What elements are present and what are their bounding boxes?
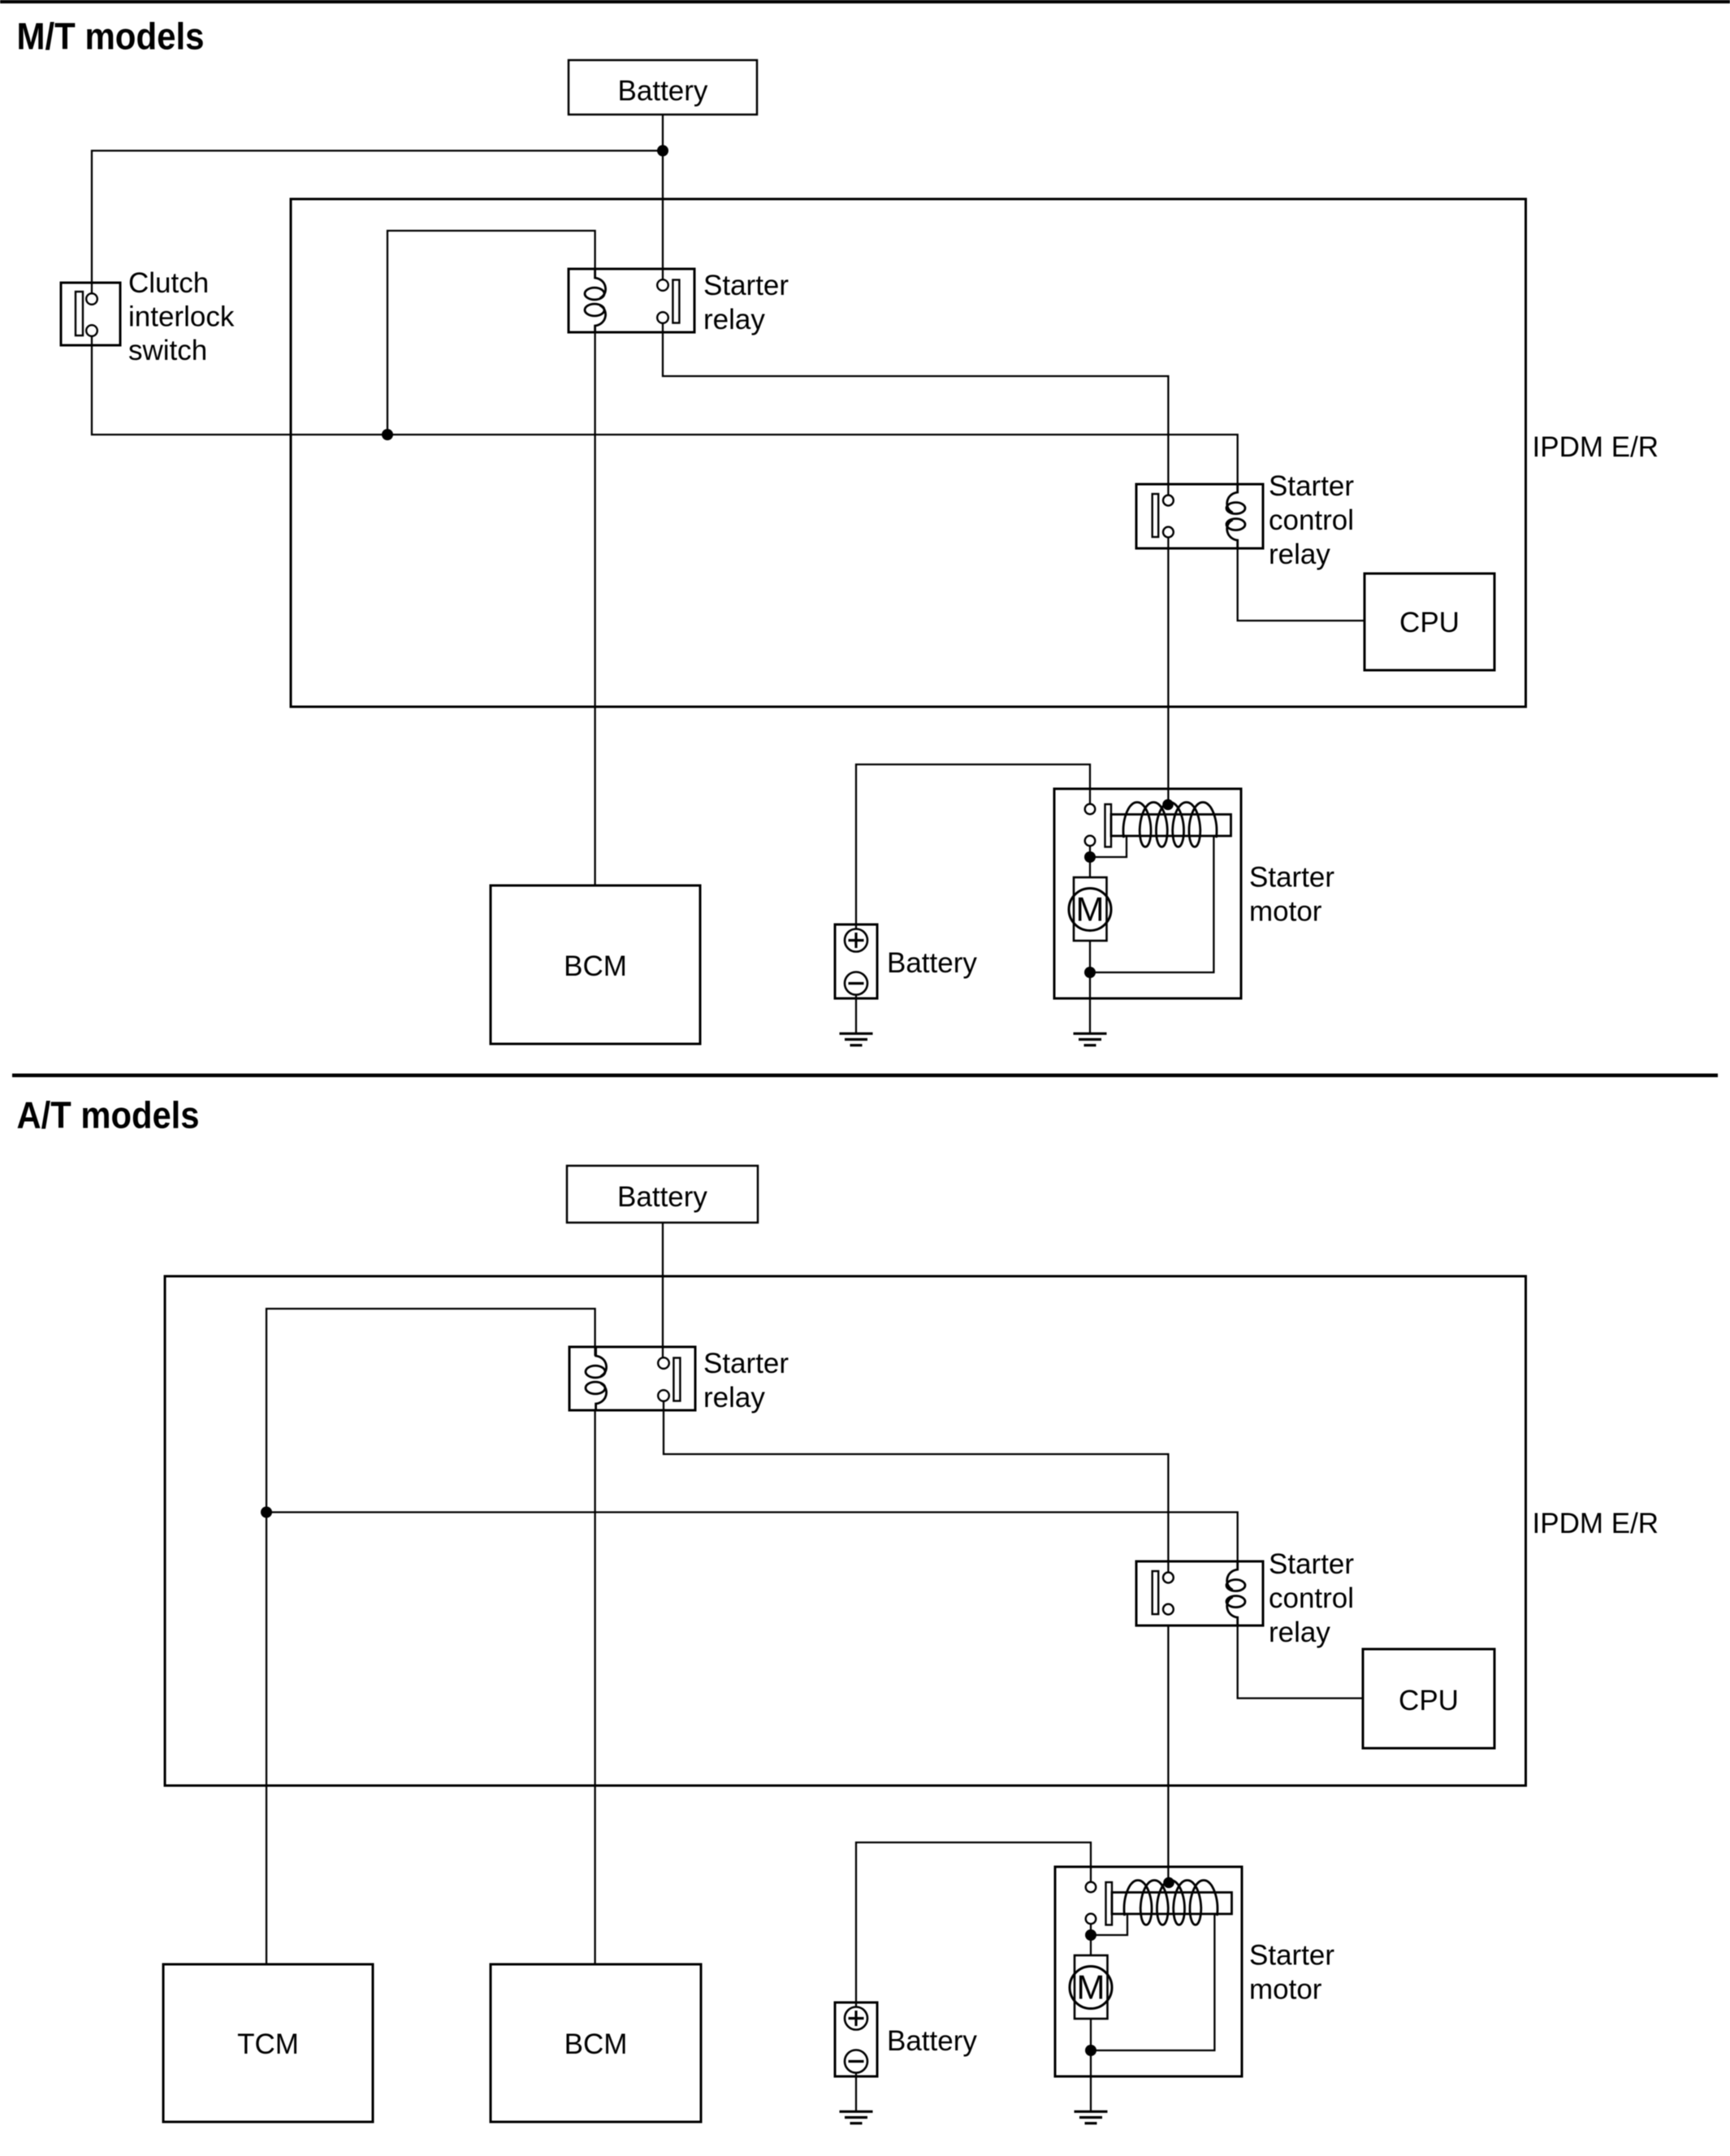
svg-text:Battery: Battery <box>617 1181 707 1213</box>
svg-text:BCM: BCM <box>564 2028 628 2060</box>
solenoid coil <box>1123 803 1217 847</box>
wire junction to solenoid core <box>1091 1914 1127 1935</box>
wire clutch switch to relay coils (lower run) <box>92 345 1238 491</box>
svg-text:motor: motor <box>1249 1974 1322 2006</box>
starter control relay (A/T) <box>1136 1561 1263 1626</box>
wire battery negative to ground <box>855 995 857 1034</box>
lower junction dot <box>1085 2045 1096 2056</box>
starter relay (A/T) contacts <box>658 1357 680 1401</box>
BCM box (A/T) <box>491 1964 701 2122</box>
svg-text:control: control <box>1269 1582 1354 1614</box>
wire junction down to TCM (A/T) <box>266 1513 267 1965</box>
svg-text:IPDM E/R: IPDM E/R <box>1533 431 1659 463</box>
wire motor to lower junction <box>1090 2019 1092 2050</box>
wire junction to motor <box>1089 857 1091 877</box>
starter relay (M/T) contacts <box>657 279 679 323</box>
wire starter relay contact to control relay contact <box>663 323 1168 496</box>
solenoid plunger bar <box>1105 804 1112 847</box>
starter relay (A/T) coil <box>586 1347 607 1410</box>
svg-text:M/T models: M/T models <box>17 15 205 58</box>
svg-text:Battery: Battery <box>618 76 708 107</box>
svg-text:Starter: Starter <box>1269 1548 1354 1580</box>
battery feed box (A/T) <box>567 1166 758 1223</box>
battery (A/T) negative terminal <box>845 2050 867 2073</box>
return wire to core bar <box>1090 836 1213 972</box>
clutch interlock switch <box>61 283 120 345</box>
starter control relay (M/T) coil <box>1226 484 1245 548</box>
svg-text:Starter: Starter <box>1249 862 1334 894</box>
svg-text:motor: motor <box>1249 896 1322 928</box>
wire junction to motor <box>1090 1935 1092 1955</box>
solenoid core bar <box>1111 815 1231 837</box>
section separator line <box>12 1074 1718 1078</box>
IPDM E/R box (M/T) <box>291 199 1526 707</box>
wire control relay coil to CPU (A/T) <box>1238 1626 1363 1699</box>
svg-text:Starter: Starter <box>1269 470 1354 502</box>
svg-text:Starter: Starter <box>703 1348 789 1379</box>
starter control relay (A/T) contacts <box>1153 1571 1174 1614</box>
svg-text:M: M <box>1076 890 1105 929</box>
wire control relay coil to CPU <box>1238 548 1365 621</box>
svg-text:Battery: Battery <box>887 947 977 979</box>
wire battery to starter motor feed (A/T) <box>856 1842 1091 2007</box>
motor M <box>1069 877 1111 941</box>
wire contact to junction <box>1089 846 1091 857</box>
starter motor (A/T) box <box>1055 1867 1242 2076</box>
wire TCM run to starter relay coil (A/T) <box>266 1309 595 1513</box>
TCM box (A/T) <box>163 1964 373 2122</box>
CPU box (M/T) <box>1365 574 1494 670</box>
battery feed box (M/T) <box>569 60 757 115</box>
starter motor (M/T) box <box>1054 789 1241 998</box>
wire control relay contact to starter motor solenoid <box>1167 537 1169 805</box>
battery (A/T) positive terminal <box>845 2007 867 2030</box>
svg-text:interlock: interlock <box>128 301 235 333</box>
starter relay (M/T) coil <box>585 269 606 332</box>
solenoid coil feed dot <box>1162 799 1174 811</box>
wire to ground <box>1090 2050 1092 2111</box>
wire starter relay coil to BCM <box>594 332 595 885</box>
wire to ground <box>1089 972 1091 1033</box>
lower junction dot <box>1084 967 1096 978</box>
wire branch to starter relay coil <box>387 231 595 435</box>
starter control relay (A/T) coil <box>1226 1561 1245 1626</box>
junction dot below contacts <box>1085 1929 1096 1941</box>
solenoid coil feed dot <box>1163 1877 1174 1889</box>
wire battery to starter motor feed <box>856 764 1090 929</box>
page top border line <box>0 0 1730 3</box>
svg-text:CPU: CPU <box>1399 607 1460 639</box>
junction dot on coil run <box>382 429 393 440</box>
ground (starter motor (M/T)) <box>1074 1033 1107 1045</box>
svg-text:control: control <box>1269 504 1354 536</box>
wire junction to solenoid core <box>1090 836 1127 857</box>
ground (M/T battery) <box>840 1033 873 1045</box>
IPDM E/R box (A/T) <box>165 1276 1526 1786</box>
svg-text:A/T models: A/T models <box>17 1094 200 1136</box>
svg-text:switch: switch <box>128 335 207 366</box>
motor M <box>1070 1955 1112 2019</box>
solenoid core bar <box>1112 1893 1232 1915</box>
ground (A/T battery) <box>840 2111 873 2123</box>
junction dot at battery feed <box>657 145 668 157</box>
battery (M/T) negative terminal <box>845 972 867 995</box>
svg-text:Clutch: Clutch <box>128 267 209 299</box>
wire control relay contact to starter motor solenoid (A/T) <box>1167 1625 1169 1883</box>
ground (starter motor (A/T)) <box>1075 2111 1108 2123</box>
CPU box (A/T) <box>1363 1649 1494 1748</box>
wire battery negative to ground (A/T) <box>855 2073 857 2112</box>
svg-text:relay: relay <box>1269 539 1330 570</box>
starter control relay (M/T) <box>1136 484 1263 548</box>
starter control relay (M/T) contacts <box>1153 494 1174 537</box>
starter relay (A/T) <box>569 1347 695 1410</box>
starter motor (M/T) solenoid contacts <box>1085 804 1096 846</box>
svg-text:IPDM E/R: IPDM E/R <box>1533 1508 1659 1539</box>
svg-text:Starter: Starter <box>1249 1940 1334 1972</box>
svg-text:relay: relay <box>1269 1617 1330 1648</box>
wire motor to lower junction <box>1089 941 1091 972</box>
junction dot below contacts <box>1084 851 1096 863</box>
solenoid coil <box>1124 1881 1217 1925</box>
svg-text:Battery: Battery <box>887 2025 977 2057</box>
wire junction to clutch switch (top run) <box>92 151 663 284</box>
junction dot on TCM run (A/T) <box>261 1507 272 1518</box>
svg-text:M: M <box>1077 1968 1105 2007</box>
starter motor (A/T) solenoid contacts <box>1086 1882 1096 1924</box>
solenoid plunger bar <box>1106 1882 1113 1925</box>
wire contact to junction <box>1090 1924 1092 1935</box>
wire starter relay contact to control relay contact (A/T) <box>664 1401 1168 1573</box>
svg-text:BCM: BCM <box>564 950 627 982</box>
BCM box (M/T) <box>491 885 700 1044</box>
svg-text:TCM: TCM <box>237 2028 299 2060</box>
wire starter relay coil to BCM (A/T) <box>594 1410 595 1964</box>
wire battery to starter relay contact <box>662 115 664 280</box>
battery (A/T) <box>835 2002 977 2076</box>
return wire to core bar <box>1091 1914 1214 2050</box>
battery (M/T) positive terminal <box>845 929 867 952</box>
svg-text:Starter: Starter <box>703 270 789 301</box>
battery (M/T) <box>835 924 977 998</box>
svg-text:relay: relay <box>703 1382 765 1414</box>
svg-text:relay: relay <box>703 304 765 336</box>
svg-text:CPU: CPU <box>1399 1685 1459 1717</box>
wire battery to starter relay contact (A/T) <box>662 1223 664 1358</box>
wire junction to control relay coil (A/T) <box>266 1513 1238 1569</box>
starter relay (M/T) <box>569 269 694 332</box>
